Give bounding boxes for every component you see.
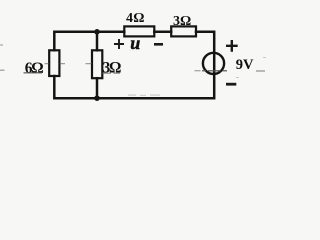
svg-text:6Ω: 6Ω xyxy=(25,60,43,77)
svg-text:Ω: Ω xyxy=(133,11,144,26)
svg-text:3Ω: 3Ω xyxy=(103,60,121,77)
svg-text:Ω: Ω xyxy=(180,14,191,29)
svg-text:3: 3 xyxy=(173,14,180,29)
svg-text:u: u xyxy=(130,33,140,53)
svg-text:4: 4 xyxy=(126,11,133,26)
svg-text:9V: 9V xyxy=(236,57,254,73)
